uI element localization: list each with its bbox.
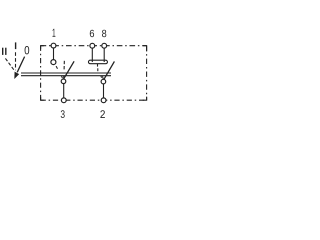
wire moving contact to terminal3 (63, 84, 65, 98)
left lever position I dash a (63, 61, 65, 64)
fixed contact circle (terminal 1 branch) (51, 60, 56, 65)
enclosure border bottom (dash-dot) (41, 99, 147, 101)
left lever position I dash b (63, 66, 65, 69)
terminal 1 circle (51, 43, 56, 48)
moving contact circle (terminal 2 branch) (101, 79, 106, 84)
left lever position II dash a (56, 66, 57, 69)
label 1 (terminal 1) (53, 29, 56, 37)
label 6 (terminal 6) (90, 30, 94, 37)
wire moving contact to terminal2 (103, 84, 105, 98)
actuator bar (double line) (21, 73, 111, 76)
enclosure border right (dash-dot) (146, 46, 148, 100)
label 0 (position 0) (25, 46, 30, 54)
right lever alternate position dash b (102, 76, 105, 79)
label 8 (terminal 8) (102, 30, 106, 37)
wire terminal8 to bridge (103, 48, 105, 61)
wire terminal1 to fixed contact (53, 48, 55, 60)
lever indicator operating lever (solid, position 0) (17, 57, 24, 73)
border corner top-right (143, 46, 147, 52)
lever indicator arm position II (dashed) (5, 58, 15, 71)
terminal 3 circle (61, 98, 66, 103)
border corner bottom-left (41, 97, 44, 100)
label 2 (terminal 2) (100, 110, 104, 118)
moving contact circle (terminal 3 branch) (61, 79, 66, 84)
lever indicator arm position I (dashed) (15, 52, 17, 70)
right switch lever (solid) (104, 61, 115, 79)
wire terminal6 to bridge (91, 48, 93, 61)
label 3 (terminal 3) (61, 110, 65, 118)
left lever position II dash b (61, 76, 64, 78)
wire stub terminal6 into bridge (91, 60, 93, 62)
bridge stem (97, 64, 99, 67)
label I (position I) (15, 42, 16, 49)
terminal 6 circle (90, 43, 95, 48)
enclosure border top (dash-dot) (41, 45, 147, 47)
terminal 2 circle (101, 98, 106, 103)
terminal 8 circle (102, 43, 107, 48)
border corner bottom-right (143, 97, 147, 101)
enclosure border left (dash-dot) (40, 46, 42, 100)
bridge coupling dash (97, 68, 99, 71)
wire stub terminal8 into bridge (103, 60, 105, 62)
left switch lever (position 0, solid) (63, 61, 74, 79)
left lever position I dash c (63, 76, 65, 78)
label II (position II) (2, 48, 3, 55)
right lever alternate position dash a (100, 76, 103, 78)
operating lever arrowhead (15, 72, 19, 78)
bridge contact 6-8 (stadium bar) (88, 60, 107, 64)
border corner top-left (41, 46, 44, 49)
